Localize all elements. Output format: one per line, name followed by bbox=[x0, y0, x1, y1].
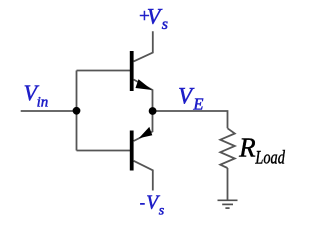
wire Q2 emitter from node bbox=[134, 111, 153, 141]
label -Vs bbox=[140, 192, 165, 218]
ground bbox=[218, 200, 238, 208]
wire base bus vertical bbox=[76, 71, 78, 151]
wire Vin input bbox=[21, 110, 77, 112]
label VE bbox=[178, 84, 203, 114]
wire Q2 collector to -Vs bbox=[134, 161, 153, 191]
wire upper base bbox=[77, 70, 131, 72]
resistor R_Load zigzag bbox=[220, 128, 235, 168]
svg-text:E: E bbox=[192, 95, 203, 114]
wire lower base bbox=[77, 150, 131, 152]
svg-text:Load: Load bbox=[255, 148, 286, 169]
wire resistor to ground bbox=[227, 168, 229, 200]
transistor Q1 bar bbox=[130, 51, 134, 91]
svg-text:s: s bbox=[162, 16, 168, 33]
svg-text:R: R bbox=[238, 133, 256, 163]
label +Vs bbox=[138, 3, 168, 33]
transistor Q2 emitter arrow bbox=[139, 127, 153, 138]
wire Q1 emitter to node VE bbox=[134, 80, 153, 112]
node VE junction bbox=[149, 107, 157, 115]
svg-text:-: - bbox=[140, 195, 145, 212]
wire node VE to resistor bbox=[153, 111, 228, 128]
transistor Q1 emitter arrow bbox=[136, 79, 153, 90]
label R_Load bbox=[238, 133, 285, 169]
label Vin bbox=[24, 80, 49, 111]
wire +Vs supply bbox=[134, 31, 153, 61]
svg-text:V: V bbox=[147, 3, 163, 28]
transistor Q2 bar bbox=[130, 131, 134, 171]
node Vin junction bbox=[73, 107, 81, 115]
svg-text:in: in bbox=[37, 95, 49, 111]
svg-text:s: s bbox=[159, 204, 165, 219]
